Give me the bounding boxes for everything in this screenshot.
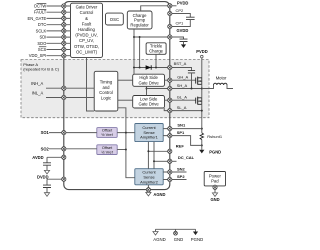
- pin SO2: [62, 147, 66, 151]
- pin DC_CAL: [168, 159, 172, 163]
- junction: [147, 150, 149, 152]
- ground GND legend: [174, 231, 178, 235]
- svg-text:(PVDD_UV,: (PVDD_UV,: [75, 33, 97, 38]
- pin SCLK: [62, 29, 66, 33]
- svg-text:AGND: AGND: [153, 237, 165, 242]
- wire: [175, 229, 177, 231]
- svg-text:Motor: Motor: [216, 76, 227, 81]
- pin EN_GATE: [62, 16, 66, 20]
- wire GateDrv-Timing bus: [87, 57, 95, 111]
- wire FET source to shunt: [201, 104, 203, 133]
- pin SDI: [62, 35, 66, 39]
- svg-text:PGND: PGND: [191, 237, 203, 242]
- pin OCTW: [62, 4, 66, 8]
- wire BST_A net: [134, 67, 170, 69]
- pin GL_A: [168, 98, 172, 102]
- svg-text:CP2: CP2: [176, 8, 185, 13]
- wire DC_CAL vertical: [153, 142, 155, 169]
- wire INL_A: [46, 97, 94, 99]
- wire trickle out: [155, 54, 157, 67]
- svg-text:OCTW: OCTW: [34, 4, 47, 9]
- pin SN2: [168, 170, 172, 174]
- block: Low Side Gate Drive: [133, 96, 165, 109]
- wire INH_A: [46, 87, 94, 89]
- junction: [139, 36, 141, 38]
- wire amp2-AGND: [147, 185, 149, 190]
- junction: [155, 67, 157, 69]
- wire SDO: [47, 42, 71, 44]
- svg-text:&: &: [85, 16, 88, 21]
- pin FAULT: [62, 10, 66, 14]
- block: OSC: [106, 13, 124, 25]
- svg-text:SDO: SDO: [37, 41, 46, 46]
- wire FAULT: [47, 11, 71, 13]
- wire SO2: [49, 148, 97, 150]
- junction: [153, 160, 155, 162]
- svg-text:SO1: SO1: [41, 130, 50, 135]
- block: Power Pad: [204, 172, 225, 186]
- wire phase node column: [201, 84, 203, 98]
- wire OCTW: [47, 5, 71, 7]
- block: Offset 1/2 Vref (2): [97, 145, 117, 155]
- wire legend tie: [156, 228, 196, 230]
- wire DTC: [47, 24, 71, 26]
- pin REF: [168, 149, 172, 153]
- wire GVDD ext: [170, 37, 184, 39]
- block: Trickle Charge: [146, 43, 166, 55]
- svg-text:½ Vref: ½ Vref: [101, 149, 113, 154]
- diode D1 (bootstrap feed): [146, 65, 152, 69]
- svg-text:Gate Drive: Gate Drive: [138, 80, 159, 85]
- svg-text:Logic: Logic: [101, 95, 112, 100]
- wire SL_A net: [164, 108, 202, 111]
- svg-text:Gate Drive: Gate Drive: [138, 102, 159, 107]
- svg-text:SCS: SCS: [38, 47, 47, 52]
- pin INL_A: [62, 95, 66, 99]
- wire REF: [148, 150, 169, 152]
- junction: [146, 88, 148, 90]
- svg-text:GVDD: GVDD: [177, 28, 189, 33]
- svg-text:Handling: Handling: [78, 27, 95, 32]
- wire GVDD net: [134, 36, 170, 38]
- wire SP1 net: [163, 136, 202, 146]
- phase A dashed box: [21, 60, 209, 118]
- block: Timing and Control Logic: [94, 71, 118, 111]
- pin CP2: [168, 11, 172, 15]
- svg-text:GND: GND: [210, 197, 219, 202]
- svg-text:Pad: Pad: [211, 179, 219, 184]
- svg-text:OC_LIMIT): OC_LIMIT): [76, 49, 98, 54]
- svg-text:Amplifier2: Amplifier2: [140, 179, 159, 184]
- wire PVDD-drain: [201, 58, 203, 78]
- wire: [155, 229, 157, 231]
- ground AGND legend: [153, 232, 158, 236]
- wire: [183, 42, 185, 45]
- wire EN_GATE: [47, 17, 71, 19]
- wire PowerPad-GND: [214, 188, 216, 193]
- wire AVDD: [47, 156, 64, 158]
- pin CP1: [168, 24, 172, 28]
- block: Charge Pump Regulator: [127, 11, 152, 29]
- svg-text:DTC: DTC: [38, 22, 46, 27]
- wire offset1-amp1: [117, 132, 135, 134]
- svg-text:GND: GND: [174, 237, 184, 242]
- wire GL_A net: [165, 99, 196, 101]
- wire SN2: [163, 171, 186, 173]
- svg-text:(repeated for B & C): (repeated for B & C): [23, 67, 59, 72]
- pin VDD_SPI: [62, 54, 66, 58]
- wire CP2: [170, 14, 191, 18]
- pin SP1: [168, 134, 172, 138]
- wire to motor: [202, 85, 214, 89]
- pin SCS: [62, 47, 66, 51]
- pin DVDD: [62, 177, 66, 181]
- svg-text:GH_A: GH_A: [177, 75, 188, 80]
- wire VDD_SPI: [47, 55, 71, 57]
- wire GVDD-diode feed: [139, 37, 141, 68]
- junction: [201, 110, 203, 112]
- block: High Side Gate Drive: [133, 74, 165, 86]
- svg-text:PVDD: PVDD: [177, 1, 188, 6]
- block: Offset 1/2 Vref (1): [97, 128, 117, 138]
- wire PVDD internal feed: [141, 6, 170, 11]
- ground AGND (amp2): [146, 192, 151, 196]
- junction: [125, 149, 127, 151]
- svg-text:AGND: AGND: [153, 192, 165, 197]
- junction: [201, 144, 203, 146]
- svg-text:PVDD: PVDD: [196, 49, 207, 54]
- wire GH_A net: [165, 79, 196, 81]
- svg-text:SO2: SO2: [41, 146, 50, 151]
- wire: [46, 179, 48, 185]
- svg-text:OSC: OSC: [110, 17, 119, 22]
- svg-text:EN_GATE: EN_GATE: [27, 16, 46, 21]
- ground AGND (AVDD cap): [44, 170, 49, 174]
- transistor Q2 low-side (external NMOS): [196, 97, 202, 105]
- pin GND pad: [213, 185, 217, 189]
- svg-text:SL_A: SL_A: [177, 105, 187, 110]
- wire DC_CAL stub: [170, 160, 177, 162]
- wire: [191, 73, 193, 89]
- pin DTC: [62, 23, 66, 27]
- svg-text:DC_CAL: DC_CAL: [178, 155, 195, 160]
- svg-text:SCLK: SCLK: [36, 28, 47, 33]
- pin AGND: [146, 188, 150, 192]
- pin SH_A: [168, 86, 172, 90]
- wire timing-HS: [118, 79, 133, 81]
- junction: [139, 67, 141, 69]
- svg-text:REF: REF: [176, 143, 185, 148]
- wire: [46, 157, 48, 163]
- ground AGND (DVDD cap): [44, 193, 49, 197]
- wire offset2 out: [117, 149, 126, 151]
- wire shunt-PGND: [201, 140, 203, 150]
- pin GH_A: [168, 78, 172, 82]
- wire timing-amp2: [118, 108, 135, 178]
- pin GVDD: [168, 35, 172, 39]
- svg-text:Regulator: Regulator: [130, 23, 149, 28]
- junction: [191, 88, 193, 90]
- pin SDO: [62, 41, 66, 45]
- wire DC_CAL: [154, 160, 170, 162]
- svg-text:SP1: SP1: [177, 130, 185, 135]
- svg-text:VDD_SPI: VDD_SPI: [29, 53, 47, 58]
- svg-text:PGND: PGND: [209, 149, 221, 154]
- svg-text:½ Vref: ½ Vref: [101, 132, 113, 137]
- svg-text:SP2: SP2: [177, 174, 185, 179]
- junction: [133, 67, 135, 69]
- junction: [133, 36, 135, 38]
- wire SH_A net: [147, 88, 202, 90]
- ground PGND (GVDD cap): [181, 44, 186, 48]
- wire motor return: [227, 85, 233, 89]
- junction: [201, 128, 203, 130]
- wire CP1: [170, 20, 191, 27]
- block: Current Sense Amplifier2: [135, 169, 163, 185]
- pin SP2: [168, 177, 172, 181]
- svg-text:DVDD: DVDD: [37, 174, 49, 179]
- wire DVDD: [47, 178, 64, 180]
- svg-text:SN2: SN2: [177, 166, 186, 171]
- pin SN1: [168, 127, 172, 131]
- block: Current Sense Amplifier1: [135, 124, 163, 142]
- ground PGND legend: [193, 232, 198, 236]
- svg-text:BST_A: BST_A: [174, 61, 187, 66]
- resistor Rshunt1: [200, 133, 203, 140]
- pin INH_A: [62, 86, 66, 90]
- pin SO1: [62, 131, 66, 135]
- pin SL_A: [168, 109, 172, 113]
- svg-text:AVDD: AVDD: [32, 155, 43, 160]
- transistor Q1 high-side (external NMOS): [196, 77, 202, 85]
- svg-text:Fault: Fault: [82, 21, 92, 26]
- svg-text:Charge: Charge: [149, 49, 164, 54]
- wire SO1: [49, 132, 97, 134]
- wire REF vertical: [147, 142, 149, 169]
- svg-text:GL_A: GL_A: [177, 95, 188, 100]
- wire SCS: [47, 49, 71, 51]
- junction: [201, 88, 203, 90]
- wire: [46, 165, 48, 170]
- wire BST ext: [170, 68, 192, 71]
- pin AVDD: [62, 155, 66, 159]
- pin BST_A: [168, 65, 172, 69]
- svg-text:FAULT: FAULT: [34, 10, 47, 15]
- svg-text:SDI: SDI: [39, 35, 46, 40]
- wire SDI: [47, 36, 71, 38]
- wire SP2: [163, 179, 186, 181]
- wire SCLK: [47, 30, 71, 32]
- junction: [125, 132, 127, 134]
- svg-text:Gate Driver: Gate Driver: [76, 5, 98, 10]
- svg-text:SN1: SN1: [177, 123, 186, 128]
- wire PVDD pin stub: [170, 5, 177, 7]
- svg-text:CP1: CP1: [176, 20, 185, 25]
- wire: [46, 188, 48, 193]
- IC boundary U1 DRV8301: [64, 2, 170, 190]
- wire SN1 net: [163, 128, 202, 130]
- block: Gate Driver Control and Fault Handling: [71, 3, 103, 57]
- wire ChargePump-GVDD-HSdrive: [133, 29, 135, 74]
- svg-text:INL_A: INL_A: [32, 91, 44, 96]
- pin PVDD: [168, 4, 172, 8]
- svg-text:Rshunt1: Rshunt1: [207, 134, 223, 139]
- svg-text:Control: Control: [80, 10, 94, 15]
- svg-text:OTW, OTSD,: OTW, OTSD,: [74, 44, 99, 49]
- wire timing-LS: [118, 99, 133, 101]
- ground PGND: [199, 150, 204, 154]
- svg-text:Amplifier1: Amplifier1: [140, 135, 159, 140]
- ground GND (power pad): [212, 193, 217, 197]
- svg-text:SH_A: SH_A: [177, 83, 188, 88]
- svg-text:CP_UV,: CP_UV,: [79, 38, 94, 43]
- svg-text:INH_A: INH_A: [31, 81, 43, 86]
- wire: [195, 229, 197, 231]
- wire HS-LS link: [146, 86, 148, 95]
